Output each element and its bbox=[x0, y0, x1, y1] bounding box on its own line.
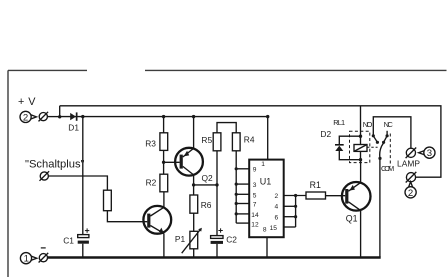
svg-text:LAMP: LAMP bbox=[397, 159, 420, 169]
terminal 1 (ground) bbox=[20, 253, 36, 265]
node pin3 bbox=[235, 183, 238, 186]
wire T1 emitter to ground bus bbox=[163, 233, 165, 257]
resistor R4 bbox=[232, 133, 240, 151]
wire U1 pin3 stub bbox=[236, 183, 249, 185]
node pin7 bbox=[235, 202, 238, 205]
wire R3 top to supply rail bbox=[163, 117, 165, 133]
node Q2 collector / R6 bbox=[192, 183, 195, 186]
svg-text:15: 15 bbox=[270, 225, 278, 232]
dashed NC travel line bbox=[389, 134, 391, 167]
node at Q2 emitter bbox=[192, 115, 195, 118]
svg-text:1: 1 bbox=[261, 161, 265, 168]
node NO contact bbox=[372, 134, 375, 137]
wire D2 bottom bracket bbox=[339, 151, 360, 160]
wire U1 pin5 stub bbox=[236, 193, 249, 195]
wire jog up from node A to top bus bbox=[59, 106, 61, 117]
wire R5 bottom to C2 bbox=[216, 151, 218, 236]
dashed actuator link bbox=[367, 146, 378, 148]
wire from D1 node down to C1 bbox=[82, 117, 84, 235]
connector symbol at terminal 2 bbox=[39, 112, 49, 122]
wire node A through D1 to supply rail bbox=[60, 116, 268, 118]
terminal 2 (lamp return) bbox=[405, 182, 416, 199]
svg-text:R1: R1 bbox=[310, 180, 321, 190]
svg-text:2: 2 bbox=[23, 112, 28, 123]
svg-text:NC: NC bbox=[384, 120, 394, 129]
wire +V top bus bbox=[60, 106, 441, 177]
node pin6 bbox=[294, 215, 297, 218]
transistor Q2 (PNP) bbox=[175, 148, 203, 176]
diode D1 bbox=[70, 112, 77, 120]
wire D2 top bracket bbox=[339, 136, 360, 145]
wire U1 pin15 stub bbox=[284, 226, 296, 228]
node relay bottom / Q1 collector bbox=[359, 158, 362, 161]
wire P1 to ground bus bbox=[193, 249, 195, 257]
wire Q2 emitter to supply rail bbox=[193, 117, 195, 149]
node NO stub end bbox=[376, 141, 379, 144]
base resistor (unlabeled) bbox=[104, 190, 112, 211]
NC fixed contact stub bbox=[384, 136, 388, 143]
svg-text:"Schaltplus": "Schaltplus" bbox=[25, 158, 85, 170]
resistor R5 bbox=[213, 133, 221, 151]
wire R3 bottom to node bbox=[163, 150, 165, 162]
wire R6 bottom to P1 bbox=[193, 213, 195, 231]
wire U1 pin1 to supply rail bbox=[267, 117, 269, 160]
resistor R1 bbox=[306, 192, 326, 199]
wire U1 pin4 stub bbox=[284, 205, 296, 207]
wire C1 to ground bus bbox=[82, 244, 84, 257]
svg-text:D2: D2 bbox=[320, 129, 331, 139]
node at R3 top bbox=[162, 115, 165, 118]
svg-text:+ V: + V bbox=[18, 96, 36, 108]
wire U1 pin8 to ground bus bbox=[266, 237, 268, 257]
svg-text:RL1: RL1 bbox=[333, 118, 345, 127]
wire top bus down to relay bbox=[360, 106, 362, 145]
svg-text:14: 14 bbox=[251, 212, 259, 219]
svg-text:7: 7 bbox=[253, 202, 257, 209]
wire C2 to ground bus bbox=[216, 244, 218, 257]
node pin9 bbox=[235, 167, 238, 170]
wire NC contact stub bbox=[386, 131, 388, 136]
connector symbol at terminal 1 bbox=[39, 253, 49, 263]
node NC stub end bbox=[382, 141, 385, 144]
border frame top-left segment bbox=[8, 69, 87, 71]
svg-text:1: 1 bbox=[24, 254, 29, 265]
minus label at terminal 1 bbox=[41, 247, 46, 249]
svg-text:Q2: Q2 bbox=[202, 173, 214, 183]
border frame top-right segment bbox=[145, 69, 447, 71]
svg-text:R5: R5 bbox=[201, 135, 212, 145]
node pin5 bbox=[235, 193, 238, 196]
relay RL1 dashed enclosure bbox=[350, 131, 370, 162]
wire coil bottom to node bbox=[360, 151, 362, 159]
wire node to Q2 base bbox=[164, 161, 180, 163]
svg-text:P1: P1 bbox=[175, 234, 186, 244]
resistor R3 bbox=[160, 133, 168, 151]
diode D2 bbox=[335, 145, 344, 151]
wire U1 pin9 stub bbox=[236, 168, 249, 170]
wire R2 top to R3 node bbox=[163, 162, 165, 174]
node A (junction before D1) bbox=[58, 115, 61, 118]
svg-text:C1: C1 bbox=[63, 235, 74, 245]
wire right-pin tie vertical bbox=[295, 196, 297, 228]
transistor T1 (NPN, Schaltplus switch) bbox=[143, 206, 171, 234]
node R3/R2/Q2-base bbox=[162, 161, 165, 164]
wire NO contact to lamp terminal 3 bbox=[373, 117, 411, 149]
svg-text:3: 3 bbox=[253, 182, 257, 189]
node at U1 pin1 bbox=[266, 115, 269, 118]
wire U1 pin12 stub bbox=[236, 222, 249, 224]
border frame left edge bbox=[7, 70, 9, 277]
svg-text:R3: R3 bbox=[145, 138, 156, 148]
node pin14 bbox=[235, 212, 238, 215]
wire COM to ground bus bbox=[379, 158, 381, 257]
relay switch arm bbox=[380, 143, 384, 159]
wire R4 bottom to U1 left pins bbox=[235, 151, 237, 223]
node pin4 bbox=[294, 205, 297, 208]
svg-text:2: 2 bbox=[275, 193, 279, 200]
wire bracket joining R5 and R4 tops bbox=[217, 123, 236, 133]
connector symbol Schaltplus bbox=[40, 171, 50, 181]
terminal 2 (+V input) bbox=[20, 111, 36, 123]
svg-text:6: 6 bbox=[275, 214, 279, 221]
svg-text:U1: U1 bbox=[260, 176, 272, 186]
svg-text:C2: C2 bbox=[226, 234, 237, 244]
wire Q1 emitter to ground bus bbox=[360, 210, 362, 257]
ground bus (bottom rail) bbox=[48, 256, 381, 259]
NO fixed contact stub bbox=[373, 136, 377, 143]
svg-text:12: 12 bbox=[251, 221, 259, 228]
connector symbol lamp terminal 2 bbox=[406, 172, 417, 183]
wire U1 pin14 stub bbox=[236, 213, 249, 215]
svg-text:R6: R6 bbox=[201, 200, 212, 210]
svg-text:9: 9 bbox=[253, 167, 257, 174]
node pin2 bbox=[294, 194, 297, 197]
relay RL1 coil bbox=[354, 145, 367, 152]
svg-text:R4: R4 bbox=[244, 135, 255, 145]
svg-text:Q1: Q1 bbox=[346, 214, 358, 224]
svg-text:4: 4 bbox=[275, 203, 279, 210]
svg-text:COM: COM bbox=[381, 164, 394, 173]
wire Q2 collector to R5 bottom bbox=[194, 184, 217, 186]
svg-text:NO: NO bbox=[363, 120, 373, 129]
wire R1 to Q1 base bbox=[326, 195, 346, 197]
wire base resistor to T1 base bbox=[107, 211, 147, 222]
node R5 bottom / C2 bbox=[215, 183, 218, 186]
capacitor C2 bbox=[211, 228, 223, 244]
wire Q1 top to relay node bbox=[360, 160, 362, 183]
node after D1 (C1 branch) bbox=[81, 115, 84, 118]
IC U1 body bbox=[249, 160, 284, 238]
svg-text:5: 5 bbox=[253, 192, 257, 199]
svg-text:R2: R2 bbox=[146, 177, 157, 187]
transistor Q1 (relay driver) bbox=[342, 182, 371, 211]
node NC contact bbox=[386, 134, 389, 137]
connector symbol lamp terminal 3 bbox=[406, 148, 417, 159]
terminal 3 bbox=[419, 147, 435, 159]
node COM pivot bbox=[378, 157, 381, 160]
resistor R6 bbox=[190, 195, 198, 213]
wire U1 pin6 stub bbox=[284, 216, 296, 218]
resistor R2 bbox=[160, 174, 168, 192]
wire T1 collector to R2 bbox=[163, 192, 165, 208]
capacitor C1 bbox=[78, 228, 90, 243]
wire U1 pin7 stub bbox=[236, 203, 249, 205]
wire Schaltplus to base resistor bbox=[48, 176, 107, 190]
wire U1 pin2 stub to R1 bbox=[284, 195, 306, 197]
svg-text:8: 8 bbox=[263, 227, 267, 234]
node relay top bbox=[359, 135, 362, 138]
svg-text:D1: D1 bbox=[68, 123, 79, 133]
svg-text:3: 3 bbox=[427, 148, 432, 159]
svg-text:2: 2 bbox=[408, 188, 413, 199]
wire Q2 collector down bbox=[193, 175, 195, 195]
wire terminal2 to node A bbox=[47, 116, 59, 118]
potentiometer P1 bbox=[182, 228, 202, 254]
